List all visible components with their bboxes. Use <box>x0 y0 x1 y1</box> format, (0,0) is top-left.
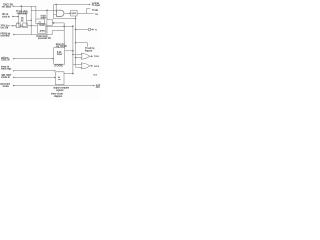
node H junction <box>56 4 57 5</box>
wire U8 output <box>90 65 92 67</box>
wire V7 gate input <box>55 4 57 11</box>
svg-text:T0 clk: T0 clk <box>92 10 99 12</box>
svg-text:T1 input: T1 input <box>92 4 100 7</box>
svg-text:clock in: clock in <box>2 16 10 18</box>
wire W11 <box>52 31 64 35</box>
svg-text:strobe: strobe <box>3 85 10 88</box>
node A junction <box>21 5 23 7</box>
wire W10 horizontal <box>31 9 56 11</box>
svg-text:OC0: OC0 <box>93 75 97 77</box>
arrowhead L1 <box>13 5 15 7</box>
wire L7 input <box>14 76 56 78</box>
svg-text:ext. input: ext. input <box>2 6 11 9</box>
block U9 (output compare register) <box>56 72 65 85</box>
or-gate U8 <box>81 63 89 69</box>
svg-text:sync: sync <box>71 13 77 15</box>
svg-text:mx: mx <box>39 21 43 23</box>
wire W8 bottom data line <box>13 85 93 87</box>
arrowhead U7 out <box>91 55 93 57</box>
arrowhead U8 out <box>91 65 93 67</box>
wire V11 long vertical <box>72 26 74 73</box>
block U3 (control box) <box>47 20 53 26</box>
wire gate U4 lower input stub <box>54 14 57 16</box>
node U3out junction <box>53 22 55 24</box>
svg-text:10-bit: 10-bit <box>39 24 45 27</box>
node label IN1 (external clock input) <box>0 0 1 1</box>
svg-text:prescaler CK: prescaler CK <box>38 37 51 40</box>
arrowhead L4 <box>13 34 15 36</box>
svg-text:timer circuit: timer circuit <box>51 92 63 95</box>
node V9 junction <box>75 18 76 19</box>
svg-text:reset line: reset line <box>1 34 11 37</box>
svg-text:cnt: cnt <box>58 78 61 81</box>
svg-text:CPU: CPU <box>96 87 100 89</box>
wire V4 into U5 top <box>63 23 65 48</box>
wire V3b below U3 <box>46 25 48 34</box>
wire U3 output <box>52 22 64 24</box>
wire branch to T3 <box>76 43 88 47</box>
svg-text:register: register <box>56 89 64 92</box>
block U1 (sync circuit) <box>19 14 27 26</box>
arrowhead into U6 <box>69 13 71 14</box>
arrowhead L7 <box>13 77 15 79</box>
svg-text:TOV0: TOV0 <box>94 56 100 58</box>
arrowhead L3 <box>13 25 15 27</box>
wire W18 sync feedback <box>54 18 76 20</box>
arrowhead L5 end <box>52 58 54 59</box>
block S2 (clock mux) <box>36 19 45 23</box>
node L junction <box>75 57 76 58</box>
wire U2 output long <box>46 25 73 27</box>
wire to comparator pad <box>76 29 89 31</box>
svg-text:T1: T1 <box>95 29 97 31</box>
arrowhead L2 <box>13 16 15 18</box>
block U2 (prescaler) <box>37 24 46 33</box>
svg-text:OCF0: OCF0 <box>94 66 100 68</box>
wire U7 output <box>90 55 92 57</box>
node K junction <box>72 54 73 55</box>
node I junction <box>75 42 76 43</box>
svg-text:osc. clk: osc. clk <box>1 27 9 29</box>
wire V2 long vertical <box>30 6 32 34</box>
svg-text:diagram: diagram <box>54 95 62 98</box>
arrowhead L6 end <box>54 70 56 71</box>
block X2 (divider box) <box>23 23 28 28</box>
wire L3 row <box>11 25 17 27</box>
wire V2b into S2 mux top <box>35 6 37 19</box>
arrowhead L8 <box>13 85 15 87</box>
wire U1 output <box>27 19 32 21</box>
node N junction <box>75 29 76 30</box>
wire V6 <box>53 4 55 18</box>
svg-text:flag set: flag set <box>85 49 92 52</box>
wire W1 from IN1 <box>13 5 36 7</box>
svg-text:mask regs: mask regs <box>1 67 12 70</box>
arrowhead W8 <box>93 85 95 87</box>
svg-text:SE: SE <box>21 20 24 22</box>
wire U9 output <box>64 73 73 75</box>
or-gate U7 <box>81 53 89 59</box>
node E junction <box>31 25 32 26</box>
or-gate U7 inputs <box>73 55 82 58</box>
node F junction <box>63 25 65 27</box>
wire U5 output <box>65 50 73 52</box>
wire top rail <box>54 3 90 5</box>
wire L4 row <box>14 34 53 36</box>
svg-text:timer: timer <box>57 53 62 56</box>
node G junction <box>72 25 74 27</box>
capacitor C1 symbol <box>16 24 22 27</box>
wire L6 input <box>14 70 56 72</box>
wire V1 into U1 top <box>20 6 22 14</box>
arrowhead L5 <box>13 58 15 60</box>
node B junction <box>46 10 48 12</box>
arrowhead L7 end <box>54 77 56 78</box>
node D junction <box>31 20 32 21</box>
svg-text:presc: presc <box>40 29 46 32</box>
svg-text:strobe in: strobe in <box>1 76 10 79</box>
wire L5 input into U5 <box>14 58 54 60</box>
node M junction <box>72 73 74 75</box>
svg-text:T1S: T1S <box>95 14 99 16</box>
wire V9 long vertical from U6 <box>75 16 77 67</box>
and-gate U4 <box>57 10 65 16</box>
svg-text:reg TCCR0: reg TCCR0 <box>56 45 68 48</box>
wire P1 out <box>91 29 93 31</box>
wire stub into U1 lower input <box>18 22 19 24</box>
arrowhead L2 end <box>17 16 19 17</box>
svg-text:select logic: select logic <box>17 12 29 15</box>
wire from U6 <box>77 9 94 14</box>
wire L2 input into U1 <box>12 15 19 17</box>
block X1 (oscillator box) <box>17 23 21 28</box>
arrowhead top rail <box>89 4 91 6</box>
block U5 (timer control) <box>54 48 65 65</box>
node J junction <box>72 50 74 52</box>
pad P1 circle <box>88 28 91 31</box>
svg-text:CS02..00: CS02..00 <box>1 59 10 61</box>
wire U4 output <box>65 12 71 14</box>
block U6 (edge detector) <box>71 10 77 16</box>
arrowhead P1 out <box>92 29 94 31</box>
or-gate U8 inputs <box>73 64 82 67</box>
wire from X2 to U2 <box>28 25 38 27</box>
svg-text:select: select <box>41 16 47 19</box>
wire V3 <box>46 10 48 19</box>
svg-text:(TCNT0): (TCNT0) <box>55 65 63 67</box>
arrowhead L6 <box>13 70 15 72</box>
